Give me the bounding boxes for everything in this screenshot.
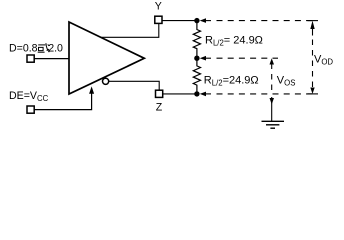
terminal Y (155, 16, 162, 23)
terminal DE (27, 106, 34, 113)
wire Z output (driver bubble to terminal Z) (109, 81, 159, 90)
node Y junction (194, 18, 199, 23)
wire Y output (driver to terminal Y) (102, 23, 159, 37)
enable arrowhead (89, 86, 94, 93)
node center junction (194, 56, 199, 61)
wire Y net to resistor (162, 20, 197, 22)
svg-text:Z: Z (156, 101, 163, 113)
wire DE to enable arrow (34, 93, 91, 110)
wire Z net to resistor (163, 93, 197, 95)
svg-text:D=0.8: D=0.8 (9, 43, 38, 55)
glyph 或 (38, 43, 50, 52)
arrowhead at Z junction (200, 92, 206, 97)
resistor RL/2 lower (193, 58, 200, 94)
dashed leader Z net to VOD (217, 93, 313, 95)
terminal Z (156, 90, 163, 97)
ground (262, 121, 285, 128)
node Z junction (194, 91, 199, 96)
inverting bubble on Z output (103, 78, 109, 84)
arrowhead at center junction (200, 56, 206, 61)
corner bar bottom of VOD (308, 93, 319, 95)
driver U1 (triangle) (69, 22, 144, 94)
arrowhead at Y junction (200, 18, 206, 23)
VOD measure line (310, 21, 314, 29)
wire D to driver (34, 58, 69, 60)
resistor RL/2 upper (193, 21, 200, 59)
svg-text:2.0: 2.0 (48, 43, 63, 55)
VOS measure line (270, 58, 275, 64)
svg-text:Y: Y (155, 1, 162, 13)
dashed leader Y net to VOD (217, 20, 313, 22)
corner bar top of VOD (308, 20, 319, 22)
terminal D (27, 55, 34, 62)
dashed leader center junction to VOS (217, 57, 279, 59)
